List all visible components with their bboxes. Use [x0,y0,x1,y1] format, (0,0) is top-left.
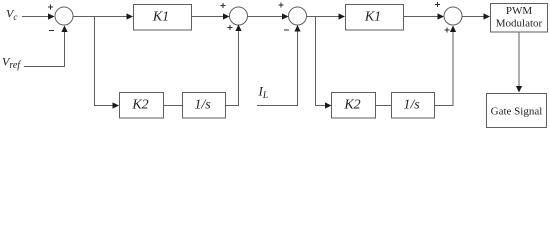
svg-text:Modulator: Modulator [496,18,543,30]
svg-text:K2: K2 [131,98,148,113]
svg-text:1/s: 1/s [403,98,420,113]
svg-text:K2: K2 [343,98,360,113]
svg-text:1/s: 1/s [194,98,211,113]
svg-text:K1: K1 [364,10,381,25]
svg-text:PWM: PWM [506,5,533,17]
svg-text:Gate Signal: Gate Signal [491,106,543,118]
svg-text:K1: K1 [152,10,169,25]
